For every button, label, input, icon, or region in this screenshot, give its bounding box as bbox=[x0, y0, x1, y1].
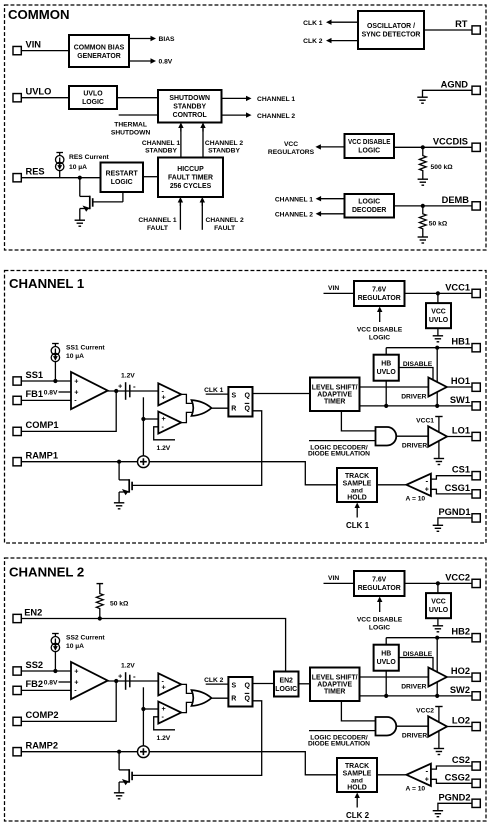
svg-text:STANDBY: STANDBY bbox=[145, 148, 177, 155]
svg-text:R: R bbox=[231, 696, 236, 703]
pin VCC1 bbox=[472, 289, 480, 297]
svg-text:CHANNEL 2: CHANNEL 2 bbox=[275, 212, 313, 219]
svg-text:1.2V: 1.2V bbox=[157, 445, 171, 452]
svg-text:REGULATOR: REGULATOR bbox=[358, 585, 401, 592]
wire SW1 rail bbox=[360, 405, 473, 407]
svg-text:CLK 2: CLK 2 bbox=[346, 811, 370, 820]
wire AGND to ground bbox=[423, 90, 473, 97]
pin VCCDIS bbox=[472, 143, 480, 151]
ground below 50k resistor bbox=[418, 237, 428, 243]
transistor ramp discharge NMOS 1 bbox=[119, 462, 133, 503]
wire HO2 bbox=[447, 676, 472, 678]
wire LO1 bbox=[447, 436, 472, 438]
svg-text:CLK 2: CLK 2 bbox=[204, 677, 224, 684]
ground below VCC UVLO bbox=[437, 328, 439, 335]
block RESTART LOGIC bbox=[101, 163, 144, 193]
pin LO1 bbox=[472, 432, 480, 440]
svg-text:CHANNEL 1: CHANNEL 1 bbox=[257, 96, 295, 103]
wire PGND2 to ground bbox=[438, 803, 472, 810]
driver LO2 bbox=[428, 716, 447, 736]
svg-text:Q: Q bbox=[244, 406, 250, 413]
pin PGND2 bbox=[472, 799, 480, 807]
svg-text:SS2: SS2 bbox=[26, 660, 44, 670]
wire COMP2 bbox=[22, 681, 117, 721]
svg-text:VCC: VCC bbox=[284, 141, 298, 148]
svg-text:0.8V: 0.8V bbox=[159, 59, 173, 66]
node VCC junction bbox=[436, 581, 440, 585]
svg-text:A = 10: A = 10 bbox=[406, 496, 426, 503]
svg-text:DRIVER: DRIVER bbox=[402, 733, 427, 740]
arrow logic decoder CHANNEL 2 bbox=[320, 213, 345, 215]
ground below LO driver bbox=[434, 749, 444, 755]
svg-text:DEMB: DEMB bbox=[442, 195, 470, 205]
svg-text:LO2: LO2 bbox=[452, 716, 470, 726]
node SS1 junction bbox=[53, 379, 57, 383]
svg-text:50 kΩ: 50 kΩ bbox=[110, 600, 129, 607]
wire HB to HO driver supply / SW return bbox=[436, 348, 438, 406]
svg-text:VCCDIS: VCCDIS bbox=[433, 136, 468, 146]
svg-text:HOLD: HOLD bbox=[347, 785, 367, 792]
svg-text:FAULT: FAULT bbox=[214, 225, 236, 232]
ground AGND bbox=[417, 97, 427, 103]
svg-text:TRACK: TRACK bbox=[345, 763, 369, 770]
arrow VCC DISABLE LOGIC into regulator bbox=[379, 311, 381, 322]
svg-text:VIN: VIN bbox=[26, 39, 42, 49]
wire HB to HO driver supply / SW return bbox=[436, 638, 438, 696]
svg-text:DISABLE: DISABLE bbox=[403, 361, 433, 368]
wire CS1 bbox=[431, 476, 472, 479]
wire comparator2 to OR gate bbox=[181, 702, 194, 712]
op-amp error amplifier EA1 bbox=[71, 372, 108, 409]
wire RAMP1 to adder bbox=[22, 461, 138, 463]
svg-text:LOGIC: LOGIC bbox=[82, 99, 104, 106]
svg-text:THERMAL: THERMAL bbox=[114, 121, 147, 128]
pin SS2 bbox=[13, 667, 21, 675]
svg-text:TIMER: TIMER bbox=[324, 689, 345, 696]
arrow output 0.8V bbox=[129, 60, 152, 62]
wire HB2 rail bbox=[386, 637, 472, 639]
arrow output CHANNEL 1 (shutdown) bbox=[222, 97, 248, 99]
supply VCC1 for LO driver bbox=[435, 416, 442, 418]
pin HB2 bbox=[472, 634, 480, 642]
wire THERMAL SHUTDOWN input bbox=[119, 114, 158, 116]
node RAMP junction bbox=[117, 750, 121, 754]
pin DEMB bbox=[472, 202, 480, 210]
transistor RES discharge NMOS bbox=[80, 178, 123, 221]
wire latch Qbar to ramp discharge gate bbox=[133, 411, 262, 486]
wire level shift to HO driver bbox=[360, 386, 429, 388]
block HICCUP FAULT TIMER 256 CYCLES bbox=[158, 158, 223, 198]
svg-text:RAMP2: RAMP2 bbox=[26, 741, 59, 751]
block TRACK SAMPLE and HOLD bbox=[337, 758, 377, 792]
op-amp error amplifier EA2 bbox=[71, 662, 108, 699]
svg-text:VCC DISABLE: VCC DISABLE bbox=[357, 326, 403, 333]
pin AGND bbox=[472, 86, 480, 94]
wire regulator to VCC2 pin bbox=[405, 582, 473, 584]
wire UVLO to uvlo logic bbox=[22, 97, 70, 99]
svg-text:SW2: SW2 bbox=[450, 685, 470, 695]
pin SW2 bbox=[472, 692, 480, 700]
node DEMB junction bbox=[421, 204, 425, 208]
block 7.6V REGULATOR 1 bbox=[354, 281, 405, 306]
node RES junction bbox=[78, 176, 82, 180]
svg-text:CLK 1: CLK 1 bbox=[303, 20, 323, 27]
svg-text:-: - bbox=[425, 476, 428, 485]
wire FB1 to error amp bbox=[22, 399, 72, 401]
svg-text:LOGIC: LOGIC bbox=[358, 148, 380, 155]
svg-text:DIODE EMULATION: DIODE EMULATION bbox=[308, 451, 370, 458]
svg-text:SHUTDOWN: SHUTDOWN bbox=[169, 95, 210, 102]
svg-text:LOGIC: LOGIC bbox=[358, 199, 380, 206]
wire LOGIC DECODER/DIODE EMULATION input bbox=[309, 440, 376, 442]
svg-text:CHANNEL 2: CHANNEL 2 bbox=[206, 217, 244, 224]
ground below LO driver bbox=[434, 459, 444, 465]
comparator PWM2 bbox=[158, 673, 181, 695]
resistor 50 kOhm bbox=[419, 206, 426, 237]
svg-text:VCC DISABLE: VCC DISABLE bbox=[348, 139, 391, 146]
svg-text:CHANNEL 2: CHANNEL 2 bbox=[9, 565, 84, 580]
pin CSG1 bbox=[472, 490, 480, 498]
svg-text:VCC1: VCC1 bbox=[445, 282, 470, 292]
driver LO1 bbox=[428, 426, 447, 446]
svg-text:HO1: HO1 bbox=[451, 376, 470, 386]
or-gate PWM reset 1 bbox=[192, 400, 212, 416]
svg-text:SHUTDOWN: SHUTDOWN bbox=[111, 129, 151, 136]
svg-text:CHANNEL 2: CHANNEL 2 bbox=[205, 140, 243, 147]
ground PGND1 bbox=[433, 525, 443, 531]
wire adder to track/sample hold bbox=[149, 462, 337, 485]
svg-text:RES Current: RES Current bbox=[69, 154, 110, 161]
pin RAMP2 bbox=[13, 748, 21, 756]
svg-text:CLK 1: CLK 1 bbox=[204, 387, 224, 394]
wire CSG2 bbox=[431, 779, 472, 783]
svg-text:PGND2: PGND2 bbox=[438, 792, 470, 802]
svg-text:UVLO: UVLO bbox=[377, 659, 397, 666]
block HB UVLO bbox=[374, 355, 399, 381]
wire AND gate to LO driver bbox=[396, 725, 429, 727]
svg-text:LOGIC: LOGIC bbox=[111, 179, 133, 186]
svg-text:COMP1: COMP1 bbox=[26, 420, 59, 430]
svg-text:1.2V: 1.2V bbox=[121, 663, 135, 670]
svg-text:R: R bbox=[231, 406, 236, 413]
svg-text:TRACK: TRACK bbox=[345, 473, 369, 480]
wire RAMP2 to adder bbox=[22, 751, 138, 753]
wire latch Q to EN2 LOGIC bbox=[253, 683, 275, 685]
wire HB1 rail bbox=[386, 347, 472, 349]
arrow CHANNEL 1 STANDBY (hiccup to shutdown control) bbox=[180, 127, 182, 158]
or-gate PWM reset 2 bbox=[192, 690, 212, 706]
block SHUTDOWN STANDBY CONTROL bbox=[158, 90, 222, 123]
wire PGND1 to ground bbox=[438, 518, 472, 525]
wire regulator to VCC1 pin bbox=[405, 292, 473, 294]
svg-text:VIN: VIN bbox=[328, 285, 339, 292]
svg-text:LOGIC: LOGIC bbox=[369, 334, 390, 341]
svg-text:GENERATOR: GENERATOR bbox=[77, 53, 120, 60]
pin HO1 bbox=[472, 383, 480, 391]
wire VIN to common bias generator bbox=[22, 50, 70, 52]
pin COMP1 bbox=[13, 427, 21, 435]
svg-text:DRIVER: DRIVER bbox=[402, 443, 427, 450]
svg-text:CHANNEL 1: CHANNEL 1 bbox=[9, 276, 84, 291]
wire AND gate to LO driver bbox=[396, 435, 429, 437]
pin FB1 bbox=[13, 396, 21, 404]
pin SW1 bbox=[472, 402, 480, 410]
flip-flop SR latch 2 bbox=[228, 677, 252, 707]
node HB junction bbox=[435, 636, 439, 640]
wire level shift to HO driver bbox=[360, 676, 429, 678]
wire level shift to AND gate bbox=[341, 701, 375, 721]
svg-text:VCC1: VCC1 bbox=[416, 418, 434, 425]
svg-text:256 CYCLES: 256 CYCLES bbox=[170, 183, 212, 190]
svg-text:CSG2: CSG2 bbox=[445, 772, 470, 782]
arrow output BIAS bbox=[129, 38, 152, 40]
block LEVEL SHIFT/ ADAPTIVE TIMER bbox=[310, 668, 360, 702]
current source SS1 Current 10 uA bbox=[51, 344, 59, 382]
wire comparator2 to OR gate bbox=[181, 412, 194, 422]
panel border: CHANNEL 1 bbox=[5, 271, 487, 544]
svg-text:SYNC DETECTOR: SYNC DETECTOR bbox=[362, 32, 421, 39]
wire LO2 bbox=[447, 726, 472, 728]
ground below VCC UVLO bbox=[437, 618, 439, 625]
pin HB1 bbox=[472, 344, 480, 352]
svg-text:RT: RT bbox=[455, 19, 468, 29]
wire CS2 bbox=[431, 766, 472, 769]
svg-text:FB2: FB2 bbox=[26, 679, 44, 689]
svg-text:CONTROL: CONTROL bbox=[173, 112, 207, 119]
block 7.6V REGULATOR 2 bbox=[354, 571, 405, 596]
svg-text:1.2V: 1.2V bbox=[157, 735, 171, 742]
svg-text:UVLO: UVLO bbox=[26, 87, 52, 97]
svg-text:STANDBY: STANDBY bbox=[208, 148, 240, 155]
svg-text:CS1: CS1 bbox=[452, 465, 470, 475]
wire RES to restart logic bbox=[22, 177, 101, 179]
svg-text:SAMPLE: SAMPLE bbox=[343, 480, 372, 487]
svg-text:VCC DISABLE: VCC DISABLE bbox=[357, 616, 403, 623]
wire DEMB bbox=[394, 205, 472, 207]
wire adder to PWM comparator inputs bbox=[142, 687, 144, 746]
svg-text:A = 10: A = 10 bbox=[406, 786, 426, 793]
svg-text:+: + bbox=[425, 777, 429, 784]
node comparator input junction bbox=[141, 417, 145, 421]
pin VIN bbox=[13, 46, 21, 54]
wire adder to track/sample hold bbox=[149, 752, 337, 775]
svg-text:SAMPLE: SAMPLE bbox=[343, 770, 372, 777]
resistor 50 kOhm EN2 pull-up bbox=[97, 583, 104, 585]
wire DISABLE bbox=[399, 658, 433, 670]
pin VCC2 bbox=[472, 579, 480, 587]
node error amp output junction bbox=[114, 389, 118, 393]
wire comparator1 to OR gate bbox=[181, 684, 194, 693]
battery 1.2V offset bbox=[126, 672, 130, 690]
amplifier current sense A=10 2 bbox=[406, 764, 431, 786]
svg-text:CSG1: CSG1 bbox=[445, 483, 470, 493]
pin EN2 bbox=[13, 614, 21, 622]
svg-text:+: + bbox=[74, 666, 78, 675]
block LEVEL SHIFT/ ADAPTIVE TIMER bbox=[310, 378, 360, 412]
svg-text:REGULATORS: REGULATORS bbox=[268, 149, 315, 156]
svg-text:RES: RES bbox=[26, 167, 45, 177]
wire OR gate to latch R input bbox=[211, 407, 228, 409]
svg-text:10 µA: 10 µA bbox=[66, 353, 84, 360]
svg-text:1.2V: 1.2V bbox=[121, 373, 135, 380]
wire adder to PWM comparator inputs bbox=[142, 397, 144, 456]
svg-text:+: + bbox=[425, 487, 429, 494]
block UVLO LOGIC bbox=[69, 86, 117, 109]
block COMMON BIAS GENERATOR bbox=[69, 35, 129, 67]
block OSCILLATOR / SYNC DETECTOR bbox=[358, 11, 424, 49]
wire FB2 to error amp bbox=[22, 689, 72, 691]
wire 1.2V reference hook to comparator bbox=[154, 427, 175, 440]
adder (ramp + comp) bbox=[138, 456, 150, 468]
svg-text:UVLO: UVLO bbox=[83, 91, 103, 98]
svg-text:500 kΩ: 500 kΩ bbox=[431, 164, 454, 171]
pin CS1 bbox=[472, 472, 480, 480]
svg-text:VCC: VCC bbox=[431, 309, 446, 316]
pin CS2 bbox=[472, 762, 480, 770]
svg-text:BIAS: BIAS bbox=[159, 36, 176, 43]
wire comparator1 to OR gate bbox=[181, 394, 194, 403]
wire error amp output bbox=[108, 680, 159, 682]
wire CSG1 bbox=[431, 489, 472, 494]
svg-text:STANDBY: STANDBY bbox=[173, 104, 206, 111]
pin PGND1 bbox=[472, 514, 480, 522]
wire level shift to AND gate bbox=[341, 411, 375, 431]
svg-text:Q: Q bbox=[244, 392, 250, 399]
comparator RAMP limit 1 bbox=[158, 412, 181, 434]
svg-text:LOGIC: LOGIC bbox=[369, 624, 390, 631]
svg-text:OSCILLATOR /: OSCILLATOR / bbox=[367, 23, 415, 30]
svg-text:FB1: FB1 bbox=[26, 389, 44, 399]
wire latch Qbar to ramp discharge gate bbox=[133, 701, 262, 776]
block EN2 LOGIC bbox=[274, 672, 299, 697]
arrow output CHANNEL 2 (shutdown) bbox=[222, 114, 248, 116]
pin COMP2 bbox=[13, 717, 21, 725]
svg-text:10 µA: 10 µA bbox=[69, 164, 87, 171]
svg-text:DISABLE: DISABLE bbox=[403, 651, 433, 658]
wire SS1 to error amp bbox=[22, 380, 72, 382]
current source RES Current 10 uA bbox=[56, 153, 64, 178]
svg-text:EN2: EN2 bbox=[24, 607, 42, 617]
svg-text:CHANNEL 2: CHANNEL 2 bbox=[257, 113, 295, 120]
svg-text:HB: HB bbox=[381, 650, 391, 657]
wire latch Q to level shift bbox=[253, 393, 311, 395]
arrow CLK 1 into track box bbox=[356, 507, 358, 518]
block VCC UVLO bbox=[437, 293, 439, 303]
svg-text:LEVEL SHIFT/: LEVEL SHIFT/ bbox=[312, 384, 358, 391]
svg-text:LOGIC: LOGIC bbox=[275, 686, 297, 693]
block VCC UVLO bbox=[437, 583, 439, 593]
svg-text:DIODE EMULATION: DIODE EMULATION bbox=[308, 741, 370, 748]
block LOGIC DECODER bbox=[345, 194, 395, 218]
arrow CLK 2 into track box bbox=[356, 797, 358, 808]
ground PGND2 bbox=[433, 811, 443, 817]
node HB junction bbox=[435, 346, 439, 350]
svg-text:ADAPTIVE: ADAPTIVE bbox=[317, 681, 352, 688]
node SW junctions bbox=[384, 404, 388, 408]
svg-text:COMMON: COMMON bbox=[8, 7, 70, 22]
pin UVLO bbox=[13, 94, 21, 102]
svg-text:S: S bbox=[231, 392, 236, 399]
svg-text:Q: Q bbox=[244, 696, 250, 703]
arrow logic decoder CHANNEL 1 bbox=[320, 198, 345, 200]
arrow output CLK 1 bbox=[331, 21, 359, 23]
svg-text:FAULT TIMER: FAULT TIMER bbox=[168, 175, 213, 182]
svg-text:EN2: EN2 bbox=[279, 677, 293, 684]
svg-text:-: - bbox=[425, 766, 428, 775]
wire SS2 to error amp bbox=[22, 670, 72, 672]
ground below 500k resistor bbox=[418, 179, 428, 185]
node error amp output junction bbox=[114, 679, 118, 683]
wire OR gate to latch R input bbox=[211, 697, 228, 699]
arrow CHANNEL 1 FAULT input bbox=[179, 202, 181, 230]
svg-text:DRIVER: DRIVER bbox=[401, 683, 426, 690]
wire oscillator to RT pin bbox=[424, 29, 472, 31]
wire uvlo logic to shutdown standby control bbox=[117, 97, 158, 99]
svg-text:SS1 Current: SS1 Current bbox=[66, 345, 105, 352]
svg-text:+: + bbox=[162, 683, 166, 692]
svg-text:HB1: HB1 bbox=[451, 337, 470, 347]
svg-text:+: + bbox=[118, 673, 122, 680]
svg-text:RAMP1: RAMP1 bbox=[26, 451, 59, 461]
svg-text:-: - bbox=[133, 672, 136, 681]
wire SW2 rail bbox=[360, 695, 473, 697]
svg-text:HO2: HO2 bbox=[451, 666, 470, 676]
and-gate LO2 enable bbox=[376, 717, 397, 736]
svg-text:REGULATOR: REGULATOR bbox=[358, 295, 401, 302]
panel border: CHANNEL 2 bbox=[5, 558, 487, 821]
block HB UVLO bbox=[374, 645, 399, 671]
pin LO2 bbox=[472, 722, 480, 730]
wire restart logic to hiccup fault timer bbox=[143, 176, 158, 178]
pin SS1 bbox=[13, 377, 21, 385]
svg-text:RESTART: RESTART bbox=[106, 171, 139, 178]
node EN2 junction bbox=[98, 616, 102, 620]
svg-text:VIN: VIN bbox=[328, 575, 339, 582]
svg-text:Q: Q bbox=[244, 682, 250, 689]
comparator PWM1 bbox=[158, 383, 181, 405]
svg-text:and: and bbox=[351, 487, 363, 494]
current source SS2 Current 10 uA bbox=[51, 634, 59, 672]
svg-text:CS2: CS2 bbox=[452, 755, 470, 765]
arrow output CLK 2 bbox=[331, 40, 359, 42]
wire COMP1 bbox=[22, 391, 117, 431]
wire track box to sense amp bbox=[377, 774, 406, 776]
resistor 500 kOhm bbox=[419, 147, 426, 179]
svg-text:PGND1: PGND1 bbox=[438, 507, 470, 517]
arrow to VCC REGULATORS bbox=[320, 146, 345, 148]
svg-text:SS1: SS1 bbox=[26, 370, 44, 380]
svg-text:HOLD: HOLD bbox=[347, 495, 367, 502]
svg-text:LEVEL SHIFT/: LEVEL SHIFT/ bbox=[312, 674, 358, 681]
svg-text:and: and bbox=[351, 777, 363, 784]
flip-flop SR latch 1 bbox=[228, 387, 252, 417]
svg-text:VCC2: VCC2 bbox=[445, 572, 470, 582]
svg-text:CHANNEL 1: CHANNEL 1 bbox=[142, 140, 180, 147]
svg-text:CHANNEL 1: CHANNEL 1 bbox=[138, 217, 176, 224]
battery 1.2V offset bbox=[126, 382, 130, 400]
arrow VCC DISABLE LOGIC into regulator bbox=[379, 601, 381, 612]
supply VCC2 for LO driver bbox=[435, 706, 442, 708]
pin FB2 bbox=[13, 686, 21, 694]
wire HO1 bbox=[447, 386, 472, 388]
svg-text:ADAPTIVE: ADAPTIVE bbox=[317, 391, 352, 398]
pin HO2 bbox=[472, 673, 480, 681]
node VCCDIS junction bbox=[421, 145, 425, 149]
comparator RAMP limit 2 bbox=[158, 702, 181, 724]
arrow CHANNEL 2 STANDBY (hiccup to shutdown control) bbox=[202, 127, 204, 158]
panel border: COMMON bbox=[5, 5, 487, 250]
svg-text:50 kΩ: 50 kΩ bbox=[429, 221, 448, 228]
